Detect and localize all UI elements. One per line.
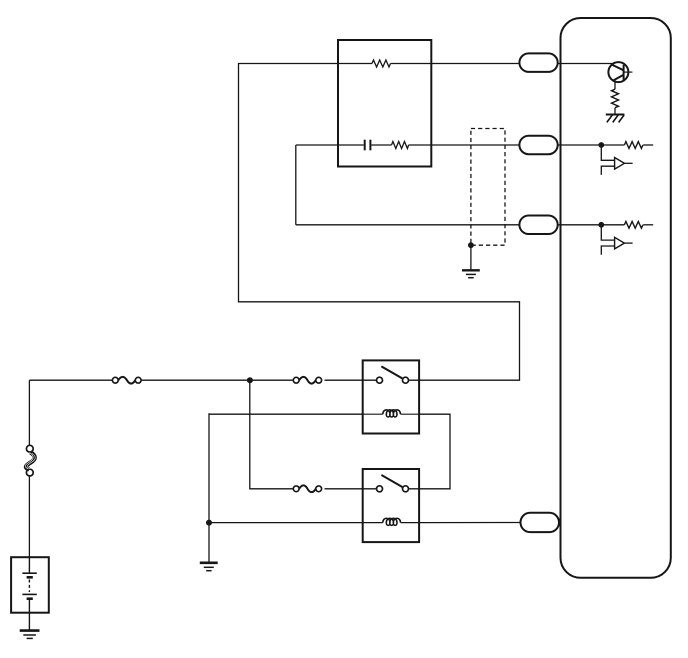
capacitor C1 [364, 140, 366, 151]
gate U1 (buffer triangle) [615, 158, 625, 170]
transistor Q1 [608, 62, 632, 82]
resistor R2 [392, 142, 409, 149]
wire to hatched ground [614, 108, 616, 115]
main feed wire y=380 [29, 379, 112, 381]
wire gate output [624, 242, 632, 244]
wire in box top [338, 63, 372, 65]
junction dot shield [468, 242, 474, 248]
wire pin1 to transistor [558, 63, 614, 65]
pin P4 [521, 513, 560, 532]
buffer unit 1 (at y=145) [598, 142, 653, 175]
fusible link F1 [25, 445, 35, 476]
wire K2 coil right to pin P4 [419, 522, 520, 524]
ground G1 [462, 270, 480, 277]
relay K2 box [363, 469, 419, 542]
relay K2 switch arm [381, 475, 402, 487]
battery B1 box [11, 557, 49, 613]
relay K1 box [363, 360, 419, 433]
ground G3 [20, 631, 40, 639]
gate U2 (buffer triangle) [615, 237, 625, 249]
wire gate input B [601, 166, 614, 175]
resistor R3 (vertical) [612, 89, 619, 107]
wire top feed y=63.5 from loop to transistor [239, 64, 520, 381]
wire branch to relay2 switch [250, 380, 293, 489]
relay K2 coil [363, 518, 419, 525]
junction dot N3 [247, 377, 253, 383]
junction dot N2 [598, 222, 604, 228]
connector X1 (inline) [112, 377, 141, 384]
wire junction to resistor [601, 224, 624, 226]
wire RC branch y=145 [296, 144, 338, 146]
wire K1 coil right to relay2 switch [409, 414, 451, 489]
pin P2 [519, 136, 557, 155]
wire to gate input A [601, 225, 614, 240]
wire to gate input A [601, 145, 614, 160]
buffer unit 2 (at y=224.8) [598, 221, 653, 254]
wire shield to ground [470, 245, 472, 270]
pin P3 [519, 216, 557, 235]
ground rail vertical x=209 [208, 413, 210, 562]
resistor R1 [372, 60, 391, 67]
battery feed vertical x=29.4 [28, 380, 30, 445]
wire y=224.8 to pin 3 [296, 224, 520, 226]
wire K2 coil left to ground rail [209, 522, 363, 524]
relay K2 switch contacts [377, 486, 383, 492]
wire K1 coil left to ground rail [209, 413, 363, 415]
wire gate input B [601, 246, 614, 255]
wire resistor stub [643, 144, 653, 146]
pin P1 (stadium) [519, 53, 557, 72]
wire gate output [624, 162, 632, 164]
relay K1 coil [363, 410, 419, 417]
connector X2 (inline) [293, 377, 321, 384]
ground G4 (hatched chassis) [606, 115, 625, 123]
connector body J1 (large rounded rectangle) [561, 18, 671, 578]
wire in box bottom [338, 144, 364, 146]
wire inside box to pin 1 [431, 63, 519, 65]
box A (top component box) [338, 40, 431, 167]
ground G2 [200, 563, 218, 571]
battery cell plates [22, 557, 36, 630]
resistor R4 [624, 142, 642, 149]
wire transistor emitter [614, 82, 616, 90]
junction dot N4 [206, 520, 212, 526]
dashed shield box [471, 129, 505, 246]
relay K1 switch arm [381, 366, 402, 378]
junction dot N1 [598, 142, 604, 148]
relay K1 switch contacts [377, 377, 383, 383]
wire junction to resistor [601, 144, 624, 146]
connector X3 (inline) [293, 485, 321, 492]
wire resistor stub [643, 224, 653, 226]
wire vertical x=295.8 [295, 145, 297, 225]
resistor R5 [624, 221, 642, 228]
